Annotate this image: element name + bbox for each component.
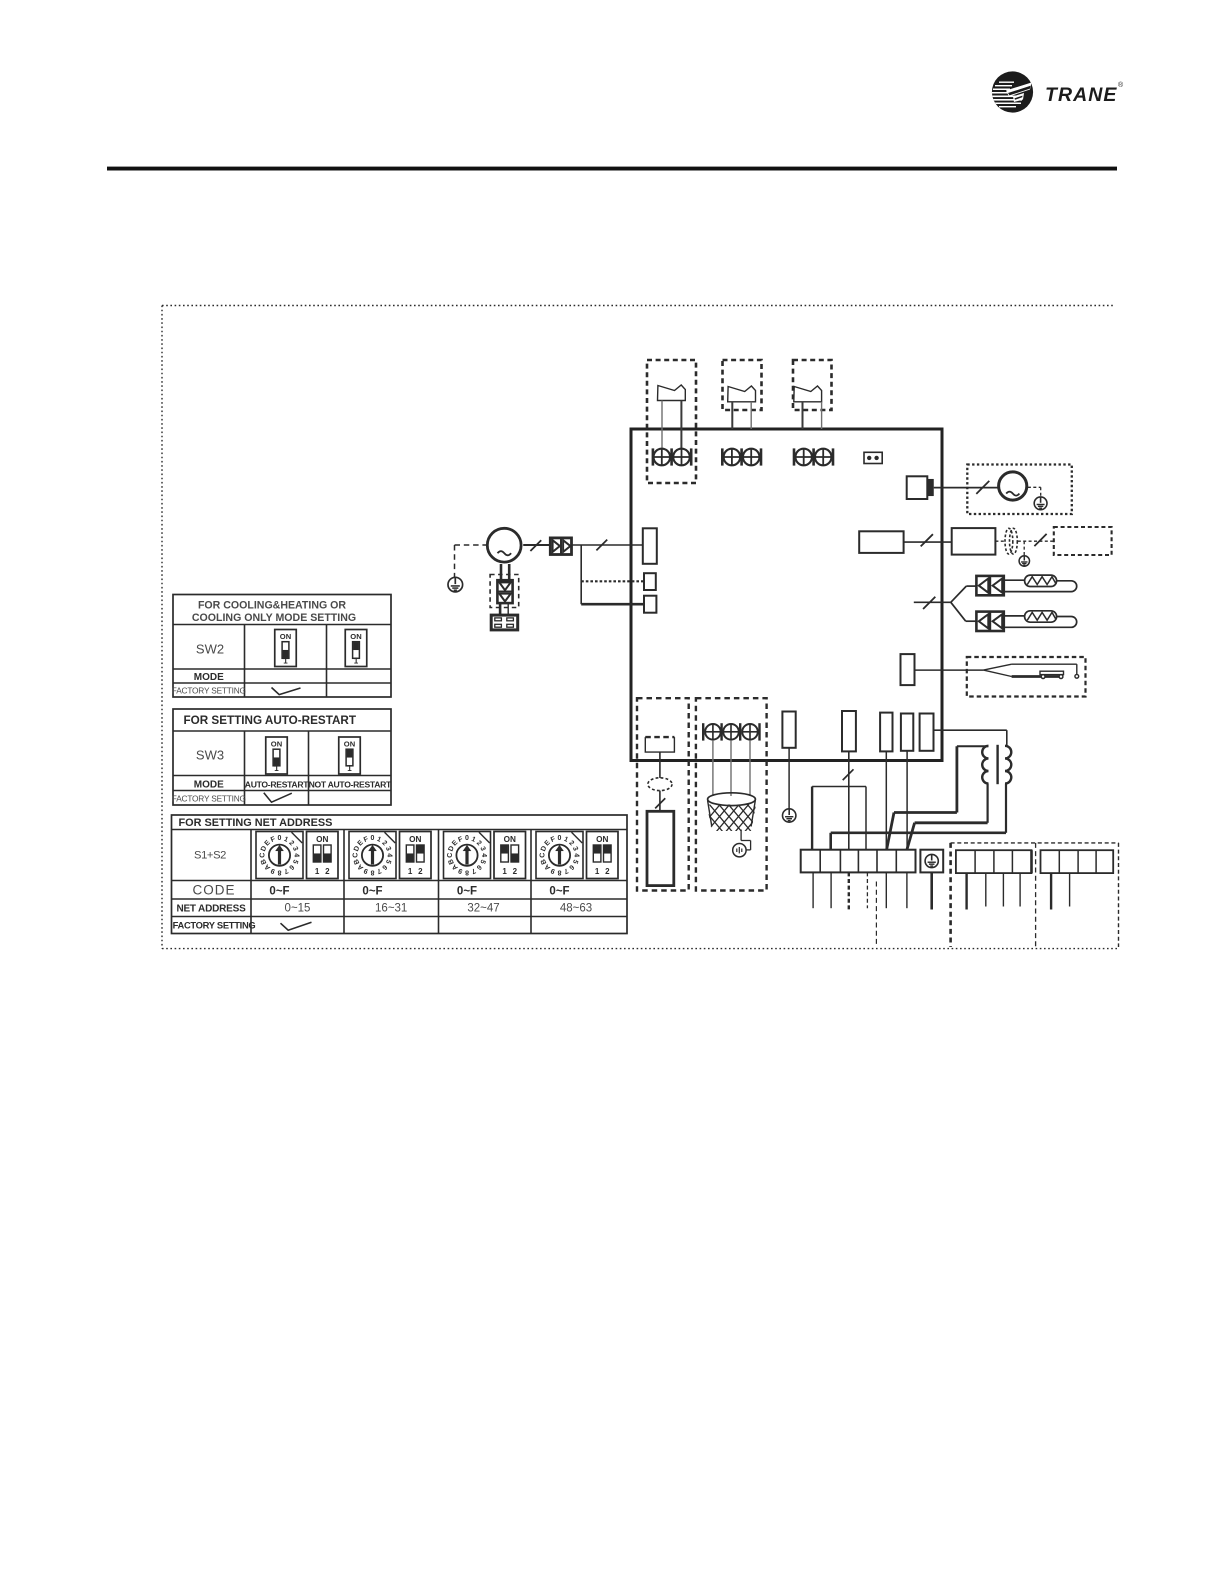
svg-text:1: 1	[354, 657, 359, 666]
svg-text:ON: ON	[280, 632, 291, 641]
svg-text:1: 1	[315, 867, 320, 876]
svg-text:NET ADDRESS: NET ADDRESS	[176, 904, 246, 915]
svg-text:ON: ON	[504, 835, 516, 844]
svg-text:ON: ON	[271, 739, 282, 748]
svg-text:1: 1	[274, 764, 279, 773]
svg-text:8: 8	[557, 868, 561, 875]
svg-text:2: 2	[605, 867, 610, 876]
svg-text:2: 2	[513, 867, 518, 876]
svg-text:2: 2	[325, 867, 330, 876]
svg-text:8: 8	[277, 868, 281, 875]
svg-text:0~F: 0~F	[269, 886, 289, 898]
svg-text:FOR SETTING AUTO-RESTART: FOR SETTING AUTO-RESTART	[184, 714, 357, 727]
svg-text:SW2: SW2	[196, 641, 224, 656]
svg-text:ON: ON	[316, 835, 328, 844]
svg-text:CODE: CODE	[192, 883, 235, 898]
svg-text:ON: ON	[596, 835, 608, 844]
svg-text:FOR SETTING NET ADDRESS: FOR SETTING NET ADDRESS	[179, 817, 333, 829]
svg-text:FACTORY SETTING: FACTORY SETTING	[172, 794, 246, 804]
svg-text:0~F: 0~F	[362, 886, 382, 898]
svg-text:1: 1	[408, 867, 413, 876]
svg-text:4: 4	[573, 853, 580, 857]
svg-text:ON: ON	[344, 739, 355, 748]
svg-text:4: 4	[293, 853, 300, 857]
svg-text:2: 2	[418, 867, 423, 876]
svg-text:FACTORY SETTING: FACTORY SETTING	[173, 920, 256, 931]
svg-text:32~47: 32~47	[467, 903, 499, 915]
svg-text:FOR COOLING&HEATING OR: FOR COOLING&HEATING OR	[198, 600, 346, 612]
svg-text:0: 0	[465, 835, 469, 842]
svg-text:16~31: 16~31	[375, 903, 407, 915]
svg-text:C: C	[352, 853, 359, 858]
svg-text:S1+S2: S1+S2	[194, 850, 226, 862]
svg-text:48~63: 48~63	[560, 903, 592, 915]
svg-text:1: 1	[502, 867, 507, 876]
svg-text:8: 8	[465, 868, 469, 875]
svg-text:ON: ON	[409, 835, 421, 844]
svg-text:C: C	[539, 853, 546, 858]
svg-text:0: 0	[371, 835, 375, 842]
svg-text:1: 1	[347, 764, 352, 773]
svg-text:4: 4	[386, 853, 393, 857]
svg-text:MODE: MODE	[194, 672, 224, 683]
svg-text:0: 0	[558, 835, 562, 842]
svg-text:FACTORY SETTING: FACTORY SETTING	[172, 686, 246, 696]
svg-text:NOT AUTO-RESTART: NOT AUTO-RESTART	[309, 779, 392, 789]
svg-text:8: 8	[370, 868, 374, 875]
svg-text:SW3: SW3	[196, 748, 224, 763]
svg-text:MODE: MODE	[194, 779, 224, 790]
svg-text:®: ®	[1118, 81, 1124, 89]
svg-text:COOLING ONLY MODE SETTING: COOLING ONLY MODE SETTING	[192, 612, 356, 624]
svg-text:0~F: 0~F	[457, 886, 477, 898]
svg-text:AUTO-RESTART: AUTO-RESTART	[245, 779, 309, 789]
svg-text:4: 4	[480, 853, 487, 857]
svg-text:C: C	[259, 853, 266, 858]
svg-text:0: 0	[278, 835, 282, 842]
svg-text:TRANE: TRANE	[1045, 84, 1117, 106]
svg-text:ON: ON	[350, 632, 361, 641]
svg-text:0~F: 0~F	[549, 886, 569, 898]
svg-text:0~15: 0~15	[285, 903, 311, 915]
svg-text:1: 1	[595, 867, 600, 876]
svg-text:1: 1	[283, 657, 288, 666]
svg-text:C: C	[447, 853, 454, 858]
